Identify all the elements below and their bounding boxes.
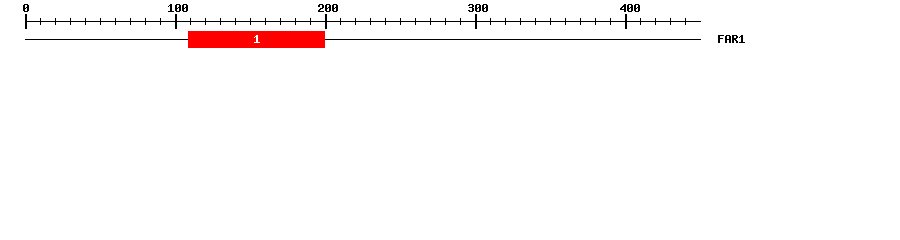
feature box 1 (red gene segment) — [188, 31, 325, 48]
major tick 300 — [475, 14, 477, 29]
ruler main line (scale track) — [25, 21, 701, 22]
ruler label 300 — [468, 4, 488, 12]
ruler label 0 — [23, 4, 29, 12]
feature number label 1 — [254, 35, 260, 43]
major tick 0 — [25, 14, 27, 29]
ruler label 100 — [168, 4, 188, 12]
major tick 200 — [325, 14, 327, 29]
major tick 100 — [175, 14, 177, 29]
feature track line — [25, 39, 701, 40]
minor ticks (every 10 units) — [40, 18, 686, 25]
ruler label 400 — [620, 4, 640, 12]
gene name label FAR1 — [718, 35, 745, 43]
major tick 400 — [625, 14, 627, 29]
ruler label 200 — [318, 4, 338, 12]
